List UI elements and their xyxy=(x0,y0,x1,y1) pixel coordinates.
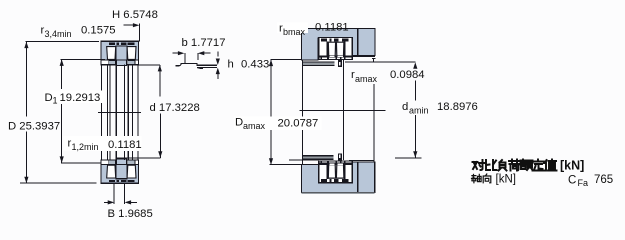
label D1 value xyxy=(44,91,105,106)
label r1,2min + value (with white box over bore lines) xyxy=(64,136,142,152)
label rbmax + value xyxy=(277,23,308,34)
svg-text:20.0787: 20.0787 xyxy=(278,117,319,129)
label Damax value xyxy=(234,117,322,132)
dimension Damax: top extension xyxy=(271,59,302,61)
wire: bore edge c (thick) xyxy=(115,65,117,160)
cage cap 3 xyxy=(334,38,339,41)
wire: washer edge b xyxy=(109,65,111,160)
wire: shaft line right vertical xyxy=(373,84,375,162)
dimension damin: arrow up xyxy=(413,62,417,68)
dimension Damax: bottom extension xyxy=(270,164,302,166)
cage cap 1 xyxy=(321,38,327,41)
wire: housing bore left xyxy=(301,60,303,165)
washer profile in detail figure xyxy=(176,64,217,69)
svg-text:amin: amin xyxy=(409,106,429,116)
dimension B: extension line right xyxy=(124,183,126,204)
center rib (blue column) xyxy=(116,46,127,60)
dimension damin: vertical line xyxy=(414,81,416,101)
svg-text:0.1181: 0.1181 xyxy=(315,22,349,34)
svg-text:1: 1 xyxy=(53,96,58,106)
roller left (white trapezoid) xyxy=(107,47,116,60)
svg-text:D: D xyxy=(235,117,243,129)
bearing top section (washers + rollers), left figure xyxy=(101,41,139,65)
bearing body xyxy=(319,38,353,60)
dimension damin: arrow down xyxy=(413,151,417,158)
char 值 xyxy=(545,160,557,171)
bottom strip tick 2b xyxy=(340,58,341,60)
dimension D: extension line top xyxy=(26,41,100,43)
svg-text:0.1181: 0.1181 xyxy=(108,139,142,151)
wire: outer right edge xyxy=(137,65,139,160)
svg-text:d: d xyxy=(402,101,408,113)
char 轴 xyxy=(472,174,482,182)
bottom strip tick 3 xyxy=(344,58,346,60)
dimension B: extension line left xyxy=(113,183,115,204)
dimension B: arrow left xyxy=(104,201,110,203)
char 比 xyxy=(486,160,497,170)
divider washer left xyxy=(327,42,329,58)
svg-text:0.433: 0.433 xyxy=(241,59,269,71)
svg-text:B 1.9685: B 1.9685 xyxy=(108,208,153,220)
bearing cross-section bottom, right figure (mirrored) xyxy=(319,161,353,183)
bearing bottom section (mirrored copy), left figure xyxy=(101,159,139,183)
shaft section strip top xyxy=(302,62,334,65)
dimension h: bottom arrow (points up) xyxy=(217,74,219,79)
bottom strip tick 1 xyxy=(327,58,329,60)
cage strip segment right xyxy=(128,60,135,64)
dimension d: extension line bottom xyxy=(116,157,160,159)
housing block bottom (single mass) xyxy=(302,162,375,192)
dimension Damax: arrow down xyxy=(269,158,273,165)
dimension d: extension line top xyxy=(137,64,160,66)
cage strip segment left xyxy=(109,60,116,64)
wire: bearing bore line xyxy=(343,60,345,160)
band white gap 1 xyxy=(330,56,335,58)
cage cap mid-left xyxy=(116,43,119,45)
bottom strip tick 2 xyxy=(336,58,338,60)
svg-text:D 25.3937: D 25.3937 xyxy=(8,121,60,133)
dimension damin: bottom extension xyxy=(395,157,421,159)
centerline, right figure xyxy=(300,109,386,111)
roller right (white, outlined) xyxy=(336,42,344,55)
svg-text:[kN]: [kN] xyxy=(560,159,584,173)
svg-text:bmax: bmax xyxy=(283,27,306,37)
bottom strip tick 0 xyxy=(321,58,322,60)
dimension D: extension line bottom xyxy=(20,182,96,184)
svg-text:Fa: Fa xyxy=(578,178,589,188)
svg-text:18.8976: 18.8976 xyxy=(437,101,478,113)
svg-text:[kN]: [kN] xyxy=(496,174,516,186)
svg-text:b 1.7717: b 1.7717 xyxy=(182,37,226,49)
bearing cross-section top, right figure xyxy=(319,38,353,60)
shaft surface line top right xyxy=(345,61,415,63)
cage cap left xyxy=(109,43,115,45)
svg-text:C: C xyxy=(568,174,576,186)
svg-text:h: h xyxy=(228,59,234,71)
dimension D1: arrow down xyxy=(60,156,64,163)
svg-text:1,2min: 1,2min xyxy=(72,142,99,152)
row label CJK: 轴向 (hand-drawn strokes) xyxy=(472,174,491,183)
bore edge lines between sections, left figure xyxy=(101,65,137,160)
char 向 xyxy=(483,174,491,183)
dimension B: arrow right xyxy=(129,201,137,203)
gray base line under bottom block xyxy=(302,192,375,194)
dimension D: vertical line xyxy=(25,42,27,117)
svg-text:765: 765 xyxy=(594,174,613,186)
cage cap 4 xyxy=(342,38,349,41)
cage strip segment center xyxy=(116,60,126,66)
char 荷 xyxy=(509,160,520,171)
dimension H: arrow xyxy=(124,24,136,26)
dimension d: lower line + arrow down xyxy=(159,114,161,158)
dimension b: extension line right xyxy=(197,53,199,60)
wire: bore edge d xyxy=(123,65,125,160)
char 对 xyxy=(473,160,485,170)
shaft surface line bottom left xyxy=(289,159,319,161)
dimension D: arrow down xyxy=(24,177,28,184)
dimension D1: extension line top xyxy=(61,58,105,60)
heading CJK: 对比负荷额定值 (hand-drawn strokes) xyxy=(473,160,557,171)
svg-text:3,4min: 3,4min xyxy=(45,29,72,39)
housing block top (single mass) xyxy=(302,29,376,60)
dimension D1: arrow up xyxy=(60,59,64,66)
dimension d: upper line + arrow up xyxy=(159,65,161,97)
shaft section strip bottom xyxy=(302,156,333,160)
cage cap right xyxy=(128,43,135,45)
svg-text:amax: amax xyxy=(355,74,378,84)
dimension H: extension line right xyxy=(138,24,140,42)
shoulder edge line in top block xyxy=(357,29,359,56)
svg-text:H 6.5748: H 6.5748 xyxy=(112,9,158,21)
wire: bore edge e (thick) xyxy=(127,65,129,160)
wire: washer edge a xyxy=(107,65,109,160)
centerline, left figure xyxy=(98,111,141,113)
char 额 xyxy=(521,160,533,171)
cage cap mid-right xyxy=(121,43,126,45)
svg-text:0.0984: 0.0984 xyxy=(390,69,425,81)
shaft surface line bottom right xyxy=(349,159,374,161)
svg-text:amax: amax xyxy=(243,121,266,131)
roller right (white trapezoid) xyxy=(127,47,136,60)
shaft washer lug top xyxy=(338,60,342,62)
shoulder edge line in bottom block xyxy=(357,162,359,192)
roller left (white, outlined) xyxy=(328,42,335,55)
dimension D1: vertical line xyxy=(61,59,63,89)
wire: outer left edge xyxy=(100,65,102,160)
shaft washer lug bottom xyxy=(338,159,342,161)
svg-text:19.2913: 19.2913 xyxy=(60,92,101,104)
dimension Damax: arrow up xyxy=(269,60,273,67)
top block right part bottom border xyxy=(353,55,376,57)
ra corner tick top xyxy=(372,59,376,63)
svg-text:0.1575: 0.1575 xyxy=(81,25,116,37)
svg-text:D: D xyxy=(45,92,53,104)
svg-text:d 17.3228: d 17.3228 xyxy=(150,102,200,114)
dimension b: arrow left xyxy=(173,52,181,54)
dimension D1: extension line bottom xyxy=(61,162,101,164)
cage cap 2 xyxy=(329,38,331,41)
blue washer block xyxy=(101,41,139,60)
lower strip of section xyxy=(101,60,139,65)
dimension Damax: vertical line xyxy=(270,60,272,165)
char 定 xyxy=(533,160,545,171)
divider washer right xyxy=(344,42,346,58)
dimension D: arrow up xyxy=(24,42,28,49)
wire: washer edge f xyxy=(132,65,134,160)
char 负 xyxy=(499,160,507,171)
dimension b: extension line left xyxy=(184,53,186,63)
dimension h: top arrow (points down) xyxy=(217,52,219,57)
dark band xyxy=(319,55,352,57)
dimension b: arrow right xyxy=(202,52,211,54)
band white gap 2 xyxy=(338,56,343,58)
